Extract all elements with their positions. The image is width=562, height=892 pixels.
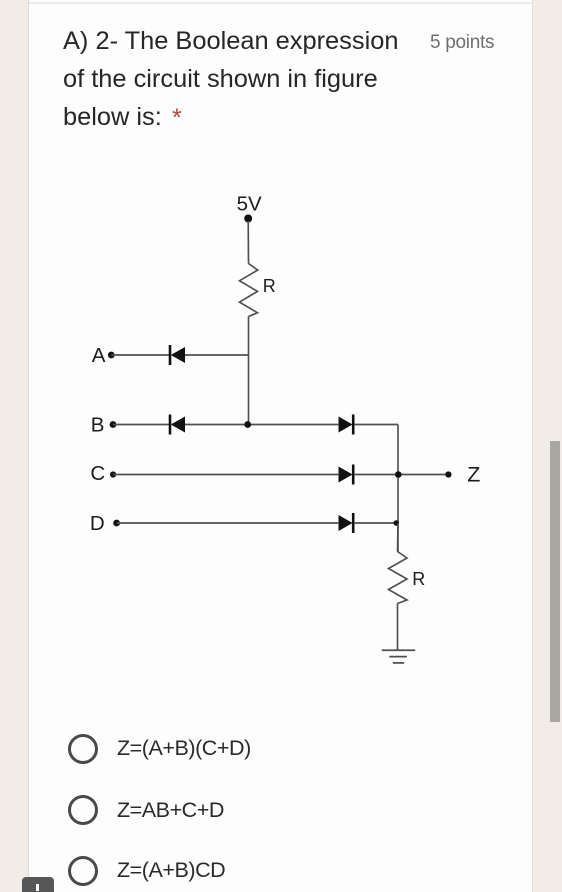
node Z terminal <box>445 471 451 477</box>
diode D1 (cathode bar) <box>169 345 172 365</box>
wire D4 to output Z <box>354 474 448 476</box>
svg-text:C: C <box>90 462 105 485</box>
wire net Z to R2 <box>397 523 400 552</box>
diode D4 (triangle) <box>339 467 353 483</box>
junction net Z at C row <box>395 471 402 478</box>
diode D5 (anode bar) <box>352 513 355 533</box>
svg-text:B: B <box>91 414 105 437</box>
question title <box>63 22 398 136</box>
wire D3 to corner <box>354 424 398 426</box>
option 2 text <box>117 798 224 822</box>
resistor R1 <box>240 264 258 317</box>
svg-text:R: R <box>263 276 276 296</box>
node D terminal <box>113 520 120 527</box>
diode D5 (triangle) <box>339 515 353 531</box>
diode D3 (triangle) <box>339 417 353 433</box>
wire R2 to ground <box>397 604 399 651</box>
points label <box>430 32 494 54</box>
option 2 radio <box>68 795 98 825</box>
option 3 radio <box>68 856 98 886</box>
ground symbol <box>382 650 415 663</box>
wire A to diode D1 <box>111 354 169 356</box>
wire 5V to R1 <box>247 221 249 264</box>
wire B to diode D2 <box>113 424 169 426</box>
resistor R2 <box>389 552 408 604</box>
svg-text:5V: 5V <box>237 193 262 216</box>
card top edge <box>29 2 533 4</box>
option 3 text <box>117 858 225 882</box>
diode D4 (anode bar) <box>352 465 355 485</box>
wire D to diode D5 <box>117 522 339 524</box>
svg-text:Z: Z <box>467 462 480 486</box>
node B terminal <box>110 421 117 428</box>
junction net Z at D row <box>394 520 400 526</box>
toast snackbar bottom-left <box>22 877 54 892</box>
wire corner down net Z <box>397 425 399 553</box>
wire D5 to net Z junction <box>354 522 398 524</box>
node 5V terminal <box>244 215 252 223</box>
svg-text:A: A <box>92 344 106 367</box>
diode D2 (triangle) <box>171 417 185 433</box>
option 1 text <box>117 736 251 760</box>
svg-text:R: R <box>412 569 425 589</box>
wire R1 to node N1 (vertical rail) <box>248 317 250 425</box>
svg-text:D: D <box>90 512 105 535</box>
node C terminal <box>110 471 116 477</box>
wire C to diode D4 <box>113 474 338 476</box>
option 1 radio <box>68 734 98 764</box>
node A terminal <box>108 352 115 359</box>
diode D3 (anode bar) <box>352 415 355 435</box>
scrollbar thumb <box>550 441 560 722</box>
junction N1 dot <box>244 421 251 428</box>
wire D2 to diode D3 across junction <box>185 424 338 426</box>
wire D1 to rail N1 <box>185 354 249 356</box>
diode D2 (cathode bar) <box>169 415 172 435</box>
diode D1 (triangle) <box>171 347 185 363</box>
